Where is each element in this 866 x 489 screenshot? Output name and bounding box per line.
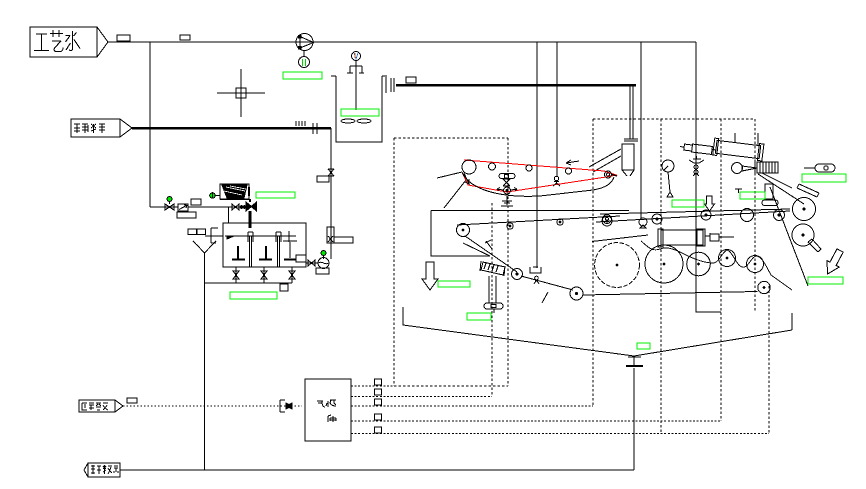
wire: shower drop 2 — [556, 42, 558, 177]
tension tee — [485, 240, 492, 249]
wire: drop to chemical feed line — [149, 42, 151, 207]
shower man figure — [553, 176, 560, 186]
felt roll — [741, 209, 754, 222]
nozzle cone — [742, 166, 757, 171]
U bracket — [530, 267, 541, 284]
paper roll small — [570, 287, 583, 300]
headbox HB1 — [622, 139, 638, 176]
crosshair reference mark — [217, 69, 265, 117]
vibrating screen S1 (hatched) — [220, 184, 249, 199]
press bottom rolls — [595, 243, 640, 288]
roll with support — [639, 218, 647, 228]
dotted air supply line — [123, 405, 302, 407]
valve V3 — [232, 204, 239, 210]
tank drain valves — [205, 267, 296, 291]
apron board lines — [589, 149, 621, 172]
couch pit drop leg — [484, 276, 503, 313]
breast roll — [457, 224, 470, 237]
valve V1 on vertical — [328, 169, 334, 176]
felt roll — [526, 165, 532, 171]
hollow arrow right — [821, 247, 846, 277]
press felt runs — [592, 209, 790, 242]
pump P2 — [318, 258, 329, 269]
agitated chest T1 — [331, 76, 387, 142]
wire: shower drop 1 — [536, 42, 538, 268]
felt lead roll — [462, 160, 476, 174]
wire: broke stock line (thick) — [132, 127, 331, 130]
couch discharge assembly — [480, 261, 523, 280]
label rect — [317, 176, 329, 182]
reel chute upper — [797, 184, 819, 197]
felt roll — [774, 210, 785, 221]
pneumatic line 2 — [351, 396, 492, 398]
check valve — [178, 204, 188, 211]
motor M under pump — [299, 57, 310, 68]
junction dots — [240, 206, 243, 209]
agitator A1 — [341, 52, 371, 124]
screen inlet indicator — [210, 193, 220, 199]
air control cabinet 气控柜 — [305, 379, 351, 441]
wire: stock line turns down — [330, 128, 332, 259]
air hookup symbol — [280, 400, 292, 412]
floor drain funnel — [193, 241, 216, 470]
green indicator dot — [321, 251, 326, 260]
wire stretcher assembly — [497, 174, 517, 207]
coupling on stock line — [313, 123, 317, 134]
couch roll — [603, 215, 612, 224]
wire: header turns down at right — [696, 42, 721, 312]
tank outlet to pump — [306, 251, 329, 275]
felt roll upper — [662, 160, 674, 172]
flag 损纸水料 (broke stock) — [71, 119, 132, 137]
couch tail line — [542, 292, 548, 303]
control valve with actuator — [327, 227, 353, 243]
green labels — [230, 72, 846, 349]
pneumatic line 5 — [351, 433, 769, 435]
guide roll w/ tip — [605, 171, 618, 178]
wire: top process water header — [108, 41, 696, 43]
reel capsule — [804, 164, 835, 172]
wire: chemical feed line — [150, 206, 244, 208]
pneumatic line 1 — [351, 385, 394, 387]
saveall V right — [634, 330, 792, 356]
label rect — [177, 212, 196, 218]
wire: chest outlet header (thick) — [396, 84, 636, 87]
wire: screen discharge (thick) into chest — [249, 211, 252, 228]
injector mixer — [246, 202, 252, 211]
text 工艺水 drawn strokes — [34, 30, 80, 52]
drain tundish — [626, 357, 643, 366]
red felt loop — [462, 160, 616, 192]
label rect on outlet — [406, 77, 416, 83]
drain header — [205, 282, 293, 284]
wire: saveall drain drop — [633, 368, 635, 470]
lower chute — [808, 239, 821, 252]
shower circle — [566, 168, 572, 174]
cylinder valve train — [680, 143, 717, 155]
first press top cylinder (tilted) — [713, 138, 764, 161]
wire frame: fourdrinier frame — [431, 180, 629, 256]
web to reel diagonals — [758, 173, 804, 204]
wire: shower drop 3 — [640, 42, 642, 218]
felt weave — [641, 241, 792, 290]
wire: double drop to headbox — [630, 85, 633, 139]
calender roll 1 — [793, 198, 816, 221]
sheet detector glyph — [689, 156, 704, 176]
seal pit tank (3 compartments) — [223, 223, 306, 267]
broke chute verticals — [791, 313, 793, 330]
support triangle — [667, 172, 673, 197]
reel spool flange — [762, 200, 778, 206]
dashed enclosure B — [593, 118, 755, 120]
pneumatic line 4 — [351, 420, 721, 422]
hatched press cylinder — [755, 160, 778, 175]
wire: branch down to tank — [228, 207, 230, 223]
wire top run — [457, 216, 620, 225]
valve V2 with green ball — [165, 197, 174, 211]
hollow arrow mid — [705, 196, 715, 211]
felt roll — [652, 214, 662, 224]
hollow arrow left — [422, 262, 438, 290]
felt roll — [701, 210, 711, 220]
label rect on header — [180, 35, 190, 40]
flag 压缩空气 (compressed air) — [79, 400, 123, 412]
felt roll — [489, 163, 496, 170]
tee mark — [735, 189, 742, 193]
press roll upper right — [732, 163, 743, 174]
press loading cylinder — [658, 229, 734, 247]
pipe hash marks — [296, 121, 305, 126]
wire: white water return line — [120, 469, 634, 471]
wire return run — [465, 236, 573, 290]
wire rolls — [507, 223, 513, 229]
dashed enclosure A left — [394, 137, 508, 139]
coupling at chest outlet — [386, 77, 394, 93]
small arrow glyph — [566, 160, 579, 165]
pneumatic line 3 — [351, 405, 593, 407]
cylinder hanger — [735, 133, 758, 145]
calender roll 2 — [792, 224, 814, 246]
machine curve under loop — [462, 172, 614, 196]
felt roll — [602, 216, 612, 226]
pump P1 on header — [296, 34, 314, 51]
saveall V left — [403, 307, 634, 356]
reel stand — [765, 184, 773, 199]
label rect — [191, 199, 201, 205]
tank inlet bracket — [188, 228, 223, 243]
flag 工艺水 (process water) — [30, 27, 108, 57]
label rect on header — [117, 35, 130, 41]
dashed drop to couch — [491, 203, 493, 396]
web run to dry end — [583, 292, 758, 296]
flag 生产水系统 (white water system) — [84, 463, 120, 477]
